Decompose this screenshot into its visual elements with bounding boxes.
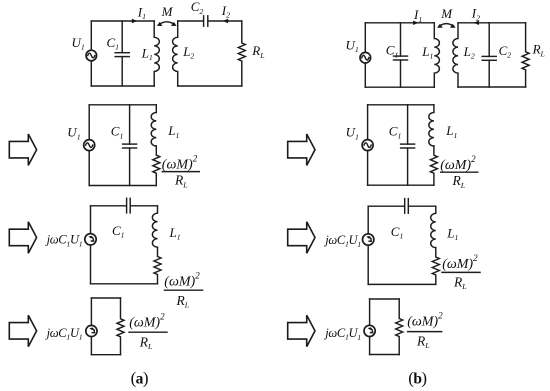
wire primary bottom row1b <box>365 86 434 88</box>
svg-text:jωC1U1: jωC1U1 <box>323 233 361 249</box>
wire loop top left row3a <box>91 205 127 207</box>
wire primary left upper row1a <box>90 21 92 50</box>
mutual inductance arrow M row1a <box>157 22 177 26</box>
current arrow I1 row1a <box>132 19 138 23</box>
block arrow row2a <box>9 134 36 165</box>
resistor (wM)^2/RL row2b <box>430 146 437 185</box>
capacitor C1s row3b <box>405 199 409 214</box>
svg-text:M: M <box>161 4 174 19</box>
inductor L1 row3b <box>431 206 436 247</box>
capacitor C1 row2a <box>123 105 137 186</box>
wire loop bottom row2a <box>89 185 156 187</box>
inductor L1 row2b <box>429 105 434 146</box>
source U1 row1b <box>360 52 371 63</box>
block arrow row3a <box>9 222 36 253</box>
block arrow row3b <box>288 222 315 253</box>
wire secondary top row1b <box>458 22 526 24</box>
capacitor C1 row1a <box>115 21 129 86</box>
label (wM)^2 over RL row4a <box>129 312 167 352</box>
svg-text:(ωM)2: (ωM)2 <box>442 253 478 272</box>
wire loop left upper row3b <box>367 206 369 234</box>
wire loop bottom row4b <box>370 354 400 356</box>
resistor (wM)^2/RL row3a <box>154 247 161 284</box>
label (wM)^2 over RL row3a <box>164 271 202 310</box>
wire loop bottom row2b <box>368 184 434 186</box>
capacitor C1s row3a <box>127 198 131 213</box>
wire loop bottom row3b <box>368 283 436 285</box>
wire loop left lower row3a <box>90 245 92 284</box>
wire secondary top left row1a <box>178 20 204 22</box>
wire loop left upper row3a <box>90 206 92 234</box>
wire loop top row4b <box>370 298 400 300</box>
label (wM)^2 over RL row3b <box>442 253 480 291</box>
wire loop top row2b <box>368 104 434 106</box>
current source jwC1U1 row3a <box>85 234 96 245</box>
capacitor C1 row2b <box>401 105 415 185</box>
wire loop top right row3a <box>130 205 157 207</box>
source U1 row2b <box>362 140 373 151</box>
capacitor C2 row1b <box>482 23 496 87</box>
svg-text:(ωM)2: (ωM)2 <box>162 154 198 173</box>
current source jwC1U1 row4b <box>364 325 375 336</box>
current arrow I2 row1a <box>223 19 229 23</box>
inductor L1 row1a <box>154 21 159 86</box>
inductor L2 row1a <box>173 21 178 86</box>
wire loop left upper row2b <box>367 105 369 140</box>
source U1 row2a <box>84 140 95 151</box>
current arrow I1 row1b <box>413 21 419 25</box>
block arrow row4a <box>9 315 36 346</box>
inductor L1 row2a <box>151 105 156 146</box>
svg-text:M: M <box>440 6 453 21</box>
wire loop top right row3b <box>409 205 436 207</box>
label (wM)^2 over RL row4b <box>407 311 443 351</box>
label (wM)^2 over RL row2b <box>440 154 478 190</box>
source U1 row1a <box>86 50 97 61</box>
wire loop left lower row4b <box>369 337 371 355</box>
resistor RL row1a <box>238 21 245 86</box>
capacitor C1 row1b <box>394 23 408 87</box>
resistor (wM)^2/RL row3b <box>432 248 439 285</box>
wire secondary bottom row1a <box>178 85 242 87</box>
wire secondary bottom row1b <box>458 86 526 88</box>
inductor L1 row1b <box>434 23 439 87</box>
wire loop left lower row2b <box>367 151 369 186</box>
svg-text:(ωM)2: (ωM)2 <box>407 311 443 330</box>
resistor RL row1b <box>522 23 529 87</box>
mutual inductance arrow M row1b <box>437 24 456 28</box>
wire loop left lower row2a <box>88 151 90 186</box>
current arrow I2 row1b <box>473 21 479 25</box>
wire primary left upper row1b <box>364 23 366 53</box>
wire loop left lower row3b <box>367 245 369 284</box>
svg-text:(ωM)2: (ωM)2 <box>129 312 165 331</box>
wire primary top row1a <box>91 20 154 22</box>
resistor (wM)^2/RL row4b <box>396 299 403 355</box>
inductor L2 row1b <box>453 23 458 87</box>
wire loop left upper row4b <box>369 299 371 325</box>
wire loop bottom row4a <box>91 354 120 356</box>
wire primary bottom row1a <box>91 85 154 87</box>
wire loop top left row3b <box>368 205 404 207</box>
resistor (wM)^2/RL row2a <box>153 146 160 186</box>
block arrow row2b <box>288 134 315 165</box>
svg-text:jωC1U1: jωC1U1 <box>45 326 83 342</box>
wire loop top row2a <box>89 104 156 106</box>
wire primary left lower row1b <box>364 63 366 87</box>
current source jwC1U1 row3b <box>363 234 374 245</box>
inductor L1 row3a <box>152 206 157 247</box>
svg-text:(ωM)2: (ωM)2 <box>440 154 476 173</box>
current source jwC1U1 row4a <box>86 325 97 336</box>
wire secondary top right row1a <box>208 20 242 22</box>
svg-text:(b): (b) <box>408 368 426 387</box>
capacitor C2 row1a <box>204 16 208 26</box>
wire loop top row4a <box>91 297 120 299</box>
wire loop left lower row4a <box>90 337 92 355</box>
svg-text:jωC1U1: jωC1U1 <box>45 233 83 249</box>
block arrow row4b <box>288 315 315 346</box>
wire loop left upper row2a <box>88 105 90 140</box>
svg-text:jωC1U1: jωC1U1 <box>323 326 361 342</box>
wire primary top row1b <box>365 22 434 24</box>
wire primary left lower row1a <box>90 61 92 86</box>
svg-text:(a): (a) <box>131 368 148 387</box>
label (wM)^2 over RL row2a <box>162 154 200 190</box>
wire loop bottom row3a <box>91 283 158 285</box>
svg-text:(ωM)2: (ωM)2 <box>164 271 200 290</box>
resistor (wM)^2/RL row4a <box>117 298 124 355</box>
wire loop left upper row4a <box>90 298 92 325</box>
